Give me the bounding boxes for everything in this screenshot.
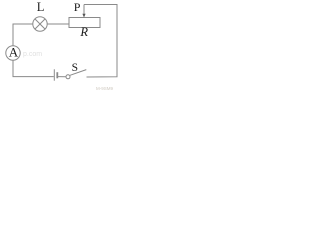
svg-text:S: S bbox=[72, 62, 78, 74]
svg-text:R: R bbox=[79, 25, 88, 39]
svg-text:M-9SM9: M-9SM9 bbox=[96, 86, 113, 91]
svg-text:L: L bbox=[37, 0, 45, 14]
svg-text:p.com: p.com bbox=[23, 51, 42, 58]
svg-text:A: A bbox=[9, 45, 19, 60]
svg-text:P: P bbox=[74, 0, 81, 14]
